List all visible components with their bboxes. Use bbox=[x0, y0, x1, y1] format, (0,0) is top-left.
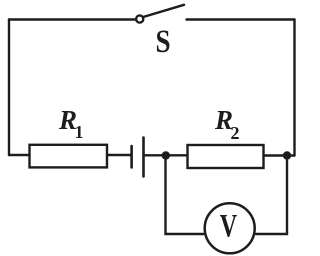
wire node A down-left to voltmeter bbox=[166, 156, 204, 235]
wire right jog to node B bbox=[287, 154, 295, 156]
voltmeter V circle bbox=[205, 203, 255, 253]
wire node B down-right to voltmeter bbox=[256, 156, 287, 235]
wire top-left horizontal bbox=[9, 18, 136, 20]
svg-text:1: 1 bbox=[75, 122, 84, 142]
switch S pivot circle bbox=[136, 15, 143, 22]
resistor R2 box bbox=[188, 145, 264, 168]
svg-text:V: V bbox=[220, 208, 238, 245]
wire R2 to node B bbox=[264, 154, 288, 156]
battery negative plate (short) bbox=[130, 146, 133, 167]
wire R1 to battery bbox=[107, 154, 131, 156]
wire bottom-left horizontal to R1 bbox=[9, 154, 30, 156]
wire top-right horizontal (switch fixed contact) bbox=[187, 18, 295, 20]
wire battery to R2 bbox=[144, 154, 188, 156]
node A junction dot bbox=[162, 151, 170, 159]
wire right vertical bbox=[293, 20, 295, 156]
node B junction dot bbox=[283, 151, 291, 159]
svg-text:S: S bbox=[155, 22, 170, 59]
svg-text:2: 2 bbox=[231, 123, 240, 143]
resistor R1 box bbox=[30, 145, 108, 168]
switch S lever bbox=[144, 5, 184, 17]
wire left vertical bbox=[8, 20, 10, 156]
battery positive plate (long) bbox=[142, 138, 145, 177]
